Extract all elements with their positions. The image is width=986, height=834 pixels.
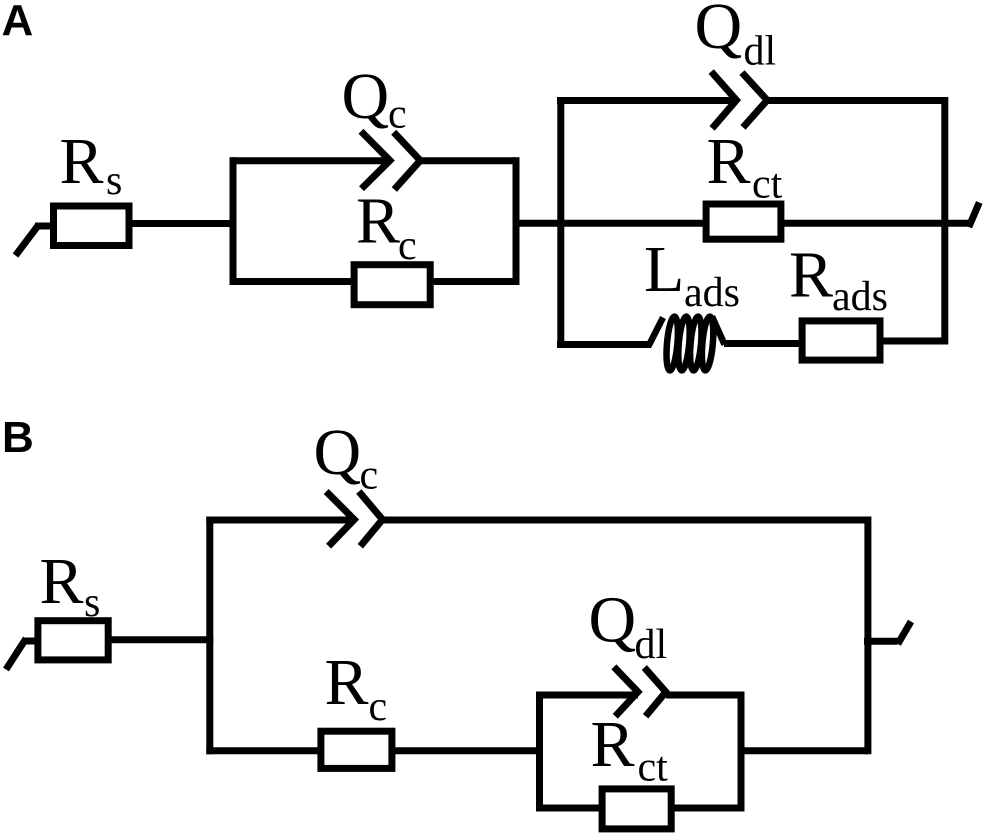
terminal tick left (panel B) xyxy=(6,639,38,670)
wire A2 bottom-right xyxy=(880,338,945,345)
resistor Rct (panel B) xyxy=(602,789,671,829)
block A2 left vertical wire xyxy=(557,101,564,345)
svg-text:R: R xyxy=(40,545,84,618)
resistor Rct (panel A) xyxy=(706,204,781,239)
label Rct (panel B) xyxy=(591,708,669,791)
svg-text:dl: dl xyxy=(744,29,777,75)
wire A2 top-right xyxy=(767,97,944,104)
svg-text:dl: dl xyxy=(635,622,668,668)
svg-text:c: c xyxy=(388,92,407,138)
svg-text:ads: ads xyxy=(832,274,888,320)
wire B top-left xyxy=(206,517,354,524)
wire A1 bottom-right xyxy=(430,278,520,285)
resistor Rs (panel B) xyxy=(38,621,108,660)
label Rads (panel A) xyxy=(789,239,888,321)
svg-text:A: A xyxy=(2,0,34,45)
svg-text:c: c xyxy=(360,453,379,499)
wire B bottom-left xyxy=(206,747,321,754)
svg-text:R: R xyxy=(707,125,751,198)
terminal tick right (panel A) xyxy=(969,203,980,228)
resistor Rc (panel A) xyxy=(354,265,430,305)
wire A2 bottom-left xyxy=(557,341,651,348)
wire A2 middle-right xyxy=(781,220,970,227)
svg-text:c: c xyxy=(398,223,417,269)
terminal tick left (panel A) xyxy=(16,225,54,256)
wire Rs to block A1 xyxy=(129,220,237,227)
wire B2 top-left xyxy=(536,692,638,699)
resistor Rs (panel A) xyxy=(54,206,130,246)
label Qc (panel A) xyxy=(342,60,407,138)
svg-text:R: R xyxy=(591,708,635,781)
block B right vertical wire xyxy=(864,520,871,751)
label Qdl (panel B) xyxy=(589,584,668,669)
inductor Lads (panel A) xyxy=(649,316,725,371)
wire B top-right xyxy=(383,517,868,524)
svg-text:s: s xyxy=(106,158,122,204)
CPE Qdl (panel B) xyxy=(614,667,666,717)
svg-text:Q: Q xyxy=(589,584,637,657)
wire A1 bottom-left xyxy=(230,278,355,285)
label Rs (panel B) xyxy=(40,545,101,626)
label Qdl (panel A) xyxy=(695,0,777,75)
block B left vertical wire xyxy=(206,520,213,751)
CPE Qc (panel A) xyxy=(361,131,420,189)
label Rs (panel A) xyxy=(60,125,123,204)
svg-text:c: c xyxy=(369,684,388,730)
svg-text:R: R xyxy=(356,185,400,258)
label Rc (panel A) xyxy=(356,185,417,270)
CPE Qc (panel B) xyxy=(326,492,382,547)
label Rc (panel B) xyxy=(325,646,388,730)
svg-text:L: L xyxy=(644,233,684,306)
svg-text:R: R xyxy=(325,646,369,719)
svg-text:s: s xyxy=(84,580,100,626)
wire B2 to block B right xyxy=(741,747,868,754)
block B2 right vertical wire xyxy=(738,695,745,808)
svg-text:R: R xyxy=(60,125,104,198)
wire B2 bottom-left xyxy=(536,805,602,812)
wire A2 bottom-middle xyxy=(724,340,802,347)
wire A1 top-left xyxy=(230,157,390,164)
block B2 left vertical wire xyxy=(536,695,543,808)
terminal tick right (panel B) xyxy=(864,622,911,645)
svg-text:R: R xyxy=(789,239,833,312)
wire B2 top-right xyxy=(666,692,741,699)
svg-text:Q: Q xyxy=(695,0,743,63)
label Qc (panel B) xyxy=(314,416,379,499)
svg-text:Q: Q xyxy=(342,60,390,133)
label Rct (panel A) xyxy=(707,125,783,208)
block A1 right vertical wire xyxy=(513,161,520,282)
svg-text:ads: ads xyxy=(684,270,740,316)
wire block A1 to block A2 xyxy=(513,220,565,227)
wire Rs to block B (panel B) xyxy=(108,636,213,643)
svg-text:ct: ct xyxy=(752,162,783,208)
block A2 right vertical wire xyxy=(941,101,948,342)
label Lads (panel A) xyxy=(644,233,740,316)
wire A2 middle-left xyxy=(557,220,706,227)
CPE Qdl (panel A) xyxy=(711,72,767,129)
wire A2 top-left xyxy=(557,97,737,104)
svg-text:Q: Q xyxy=(314,416,362,489)
wire A1 top-right xyxy=(421,157,517,164)
svg-text:ct: ct xyxy=(638,745,669,791)
wire Rc to block B2 (panel B) xyxy=(392,747,543,754)
wire B2 bottom-right xyxy=(671,805,745,812)
resistor Rads (panel A) xyxy=(802,321,880,360)
block A1 left vertical wire xyxy=(230,161,237,282)
resistor Rc (panel B) xyxy=(321,731,392,768)
svg-text:B: B xyxy=(2,413,34,462)
